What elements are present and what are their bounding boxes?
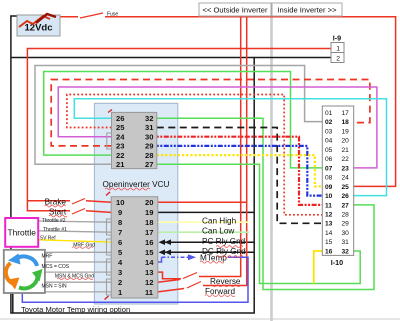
svg-text:Throttle: Throttle (7, 228, 36, 238)
svg-text:09: 09 (325, 184, 333, 191)
svg-text:29: 29 (342, 221, 350, 228)
svg-text:21: 21 (116, 160, 125, 169)
svg-text:Throttle #1: Throttle #1 (43, 227, 67, 233)
svg-text:15: 15 (325, 239, 333, 246)
svg-text:MCS = COS: MCS = COS (42, 264, 70, 270)
svg-text:19: 19 (342, 128, 350, 135)
svg-text:19: 19 (145, 208, 153, 217)
svg-text:Toyota Motor Temp wiring optio: Toyota Motor Temp wiring option (21, 305, 130, 314)
svg-text:Brake: Brake (45, 197, 67, 206)
svg-text:7: 7 (118, 228, 122, 237)
svg-text:<< Outside Inverter: << Outside Inverter (202, 6, 267, 15)
svg-text:04: 04 (325, 138, 333, 145)
svg-text:14: 14 (145, 258, 154, 267)
svg-text:32: 32 (145, 114, 153, 123)
svg-text:15: 15 (145, 248, 154, 257)
svg-text:22: 22 (116, 151, 124, 160)
svg-text:26: 26 (116, 114, 124, 123)
svg-text:Fuse: Fuse (107, 12, 118, 18)
svg-text:23: 23 (116, 142, 124, 151)
svg-text:31: 31 (342, 239, 350, 246)
svg-text:Inside Inverter >>: Inside Inverter >> (277, 6, 337, 15)
svg-text:28: 28 (342, 212, 350, 219)
svg-text:2: 2 (336, 56, 340, 63)
svg-text:26: 26 (342, 193, 350, 200)
svg-text:14: 14 (325, 230, 333, 237)
svg-text:25: 25 (342, 184, 350, 191)
svg-text:07: 07 (325, 165, 333, 172)
svg-text:3: 3 (118, 268, 122, 277)
svg-text:Can Low: Can Low (202, 227, 234, 236)
svg-text:10: 10 (325, 193, 333, 200)
svg-text:6: 6 (118, 238, 122, 247)
svg-text:17: 17 (342, 110, 350, 117)
svg-text:MSN = SIN: MSN = SIN (42, 284, 68, 290)
svg-text:24: 24 (116, 132, 125, 141)
svg-text:06: 06 (325, 156, 333, 163)
svg-text:30: 30 (145, 132, 153, 141)
svg-text:MRF: MRF (42, 254, 53, 260)
svg-text:23: 23 (342, 165, 350, 172)
svg-text:9: 9 (118, 208, 122, 217)
svg-text:16: 16 (145, 238, 153, 247)
svg-text:29: 29 (145, 142, 153, 151)
svg-text:Openinverter VCU: Openinverter VCU (103, 180, 170, 189)
svg-text:31: 31 (145, 123, 154, 132)
svg-text:03: 03 (325, 128, 333, 135)
svg-text:21: 21 (342, 147, 350, 154)
svg-text:28: 28 (145, 151, 153, 160)
svg-text:32: 32 (342, 248, 350, 255)
svg-text:18: 18 (145, 218, 153, 227)
svg-text:Start: Start (49, 208, 67, 217)
svg-text:27: 27 (145, 160, 153, 169)
svg-text:01: 01 (325, 110, 333, 117)
svg-text:10: 10 (116, 198, 124, 207)
svg-text:MSN & MCS Gnd: MSN & MCS Gnd (55, 274, 94, 280)
svg-text:12Vdc: 12Vdc (25, 23, 53, 34)
svg-text:12: 12 (325, 212, 333, 219)
svg-text:02: 02 (325, 119, 333, 126)
svg-text:20: 20 (342, 138, 350, 145)
svg-text:17: 17 (145, 228, 153, 237)
svg-text:20: 20 (145, 198, 153, 207)
svg-text:30: 30 (342, 230, 350, 237)
svg-text:I-9: I-9 (333, 34, 341, 43)
svg-text:I-10: I-10 (331, 258, 343, 267)
svg-text:13: 13 (325, 221, 333, 228)
svg-text:18: 18 (342, 119, 350, 126)
svg-text:11: 11 (145, 288, 154, 297)
svg-text:08: 08 (325, 175, 333, 182)
svg-text:11: 11 (325, 202, 332, 209)
svg-text:13: 13 (145, 268, 153, 277)
svg-text:27: 27 (342, 202, 350, 209)
svg-text:05: 05 (325, 147, 333, 154)
svg-text:24: 24 (342, 175, 350, 182)
svg-text:25: 25 (116, 123, 125, 132)
svg-text:16: 16 (325, 248, 333, 255)
svg-text:PC Rly Gnd: PC Rly Gnd (202, 237, 246, 246)
svg-text:22: 22 (342, 156, 350, 163)
svg-text:2: 2 (118, 278, 122, 287)
svg-text:5V Ref: 5V Ref (40, 235, 56, 241)
svg-text:Can High: Can High (202, 217, 237, 226)
svg-text:Throttle #2: Throttle #2 (42, 218, 66, 224)
svg-text:12: 12 (145, 278, 153, 287)
svg-text:1: 1 (336, 46, 340, 53)
svg-text:8: 8 (118, 218, 122, 227)
